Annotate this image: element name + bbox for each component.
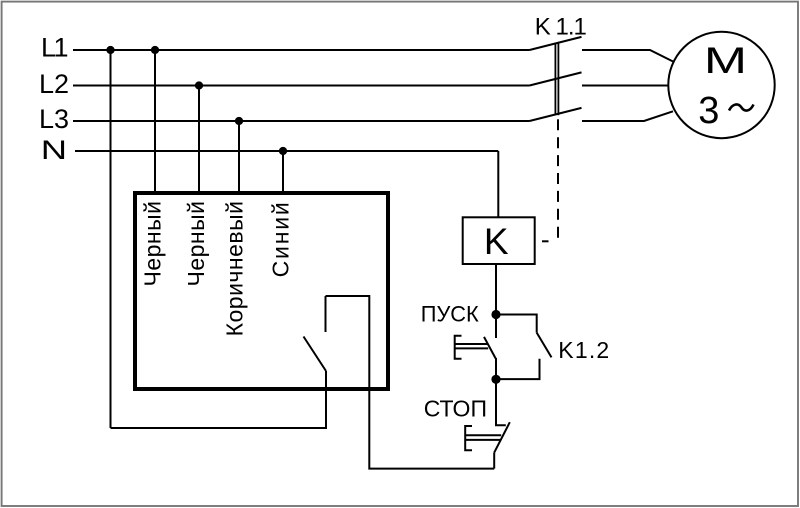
svg-text:3: 3	[698, 90, 719, 132]
svg-text:Черный: Черный	[183, 201, 209, 287]
device box	[135, 193, 388, 389]
contact K1.2 blade	[537, 333, 552, 358]
label motor tilde	[729, 104, 754, 110]
wire bottom return STOP to box	[326, 296, 495, 469]
wire N to coil K	[497, 151, 499, 218]
node N	[279, 147, 287, 155]
button STOP blade	[494, 422, 510, 452]
contact K1.2 bottom wire	[496, 359, 540, 379]
wire N drop into box (blue)	[282, 151, 284, 193]
contact K1.1 pole 1 blade	[530, 37, 582, 50]
node PUSK bottom	[491, 375, 500, 384]
motor circle M 3~	[668, 32, 774, 138]
contact K1.1 pole 3 blade	[530, 108, 582, 121]
wire L3 drop into box (brown)	[238, 121, 240, 193]
contact K1.2 branch top wire	[496, 315, 537, 333]
svg-text:L2: L2	[39, 69, 69, 99]
button STOP actuator	[465, 426, 472, 450]
svg-text:ПУСК: ПУСК	[421, 302, 479, 327]
svg-text:Черный: Черный	[140, 201, 166, 287]
node PUSK top	[491, 310, 500, 319]
wire pole3 to motor	[582, 111, 673, 121]
node L2	[195, 81, 203, 89]
svg-text:N: N	[41, 135, 67, 165]
wire L2 drop into box (black)	[198, 86, 200, 194]
svg-text:Коричневый: Коричневый	[222, 201, 248, 337]
box switch blade	[304, 337, 327, 372]
contact K1.1 pole 2 blade	[530, 72, 582, 85]
wire pole2 to motor	[582, 85, 668, 87]
box switch lower wire	[325, 371, 327, 428]
svg-text:K: K	[484, 221, 509, 262]
wire L1 drop to control loop	[110, 50, 112, 428]
wire L2 bus	[73, 85, 530, 87]
wire N bus	[75, 150, 498, 152]
svg-text:M: M	[704, 39, 747, 81]
wire pole1 to motor	[582, 50, 674, 62]
wire L1 bus	[73, 49, 530, 51]
wire PUSK bottom stub	[495, 358, 497, 379]
svg-text:K 1.1: K 1.1	[535, 13, 587, 40]
svg-text:K1.2: K1.2	[558, 337, 610, 363]
wire STOP bottom stub	[493, 453, 495, 469]
svg-text:Синий: Синий	[268, 201, 294, 278]
dashed linkage to coil	[557, 119, 559, 244]
wire STOP top stub	[496, 379, 506, 425]
button PUSK blade	[484, 337, 496, 359]
svg-text:L1: L1	[41, 32, 68, 62]
wire L3 bus	[73, 120, 530, 122]
wire control loop bottom	[111, 427, 328, 429]
svg-text:СТОП: СТОП	[424, 395, 487, 421]
node L1-a	[106, 46, 114, 54]
button PUSK actuator	[455, 336, 462, 359]
coil K box	[463, 217, 535, 264]
node L3	[235, 117, 243, 125]
wire PUSK top stub	[495, 315, 497, 339]
box switch fixed stub	[325, 296, 327, 332]
wire coil K to PUSK node	[495, 264, 497, 315]
contactor linkage double line	[554, 43, 556, 116]
svg-text:L3: L3	[39, 104, 69, 134]
wire L1 drop into box (black)	[154, 50, 156, 193]
node L1-b	[151, 46, 159, 54]
dash next to coil K	[542, 240, 549, 242]
